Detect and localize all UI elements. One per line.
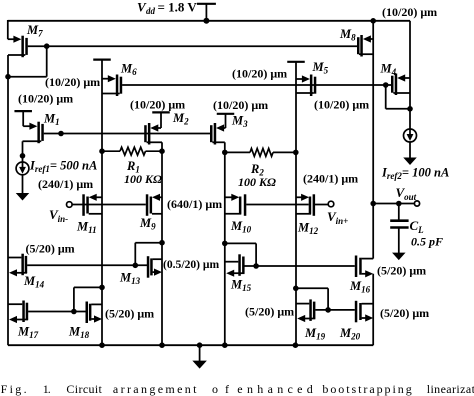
svg-text:(240/1) μm: (240/1) μm bbox=[38, 177, 93, 191]
svg-text:M16: M16 bbox=[349, 279, 371, 295]
svg-text:(10/20) μm: (10/20) μm bbox=[213, 98, 268, 112]
svg-text:1.: 1. bbox=[43, 382, 51, 396]
svg-text:(5/20) μm: (5/20) μm bbox=[245, 305, 294, 319]
svg-text:Vin+: Vin+ bbox=[327, 209, 348, 226]
svg-text:100 KΩ: 100 KΩ bbox=[124, 172, 162, 186]
svg-text:of: of bbox=[212, 382, 229, 396]
svg-text:M17: M17 bbox=[17, 325, 39, 341]
svg-text:(5/20) μm: (5/20) μm bbox=[380, 306, 429, 320]
svg-text:(10/20) μm: (10/20) μm bbox=[382, 5, 437, 19]
svg-text:M2: M2 bbox=[172, 111, 189, 127]
svg-text:M7: M7 bbox=[26, 23, 43, 39]
svg-text:M11: M11 bbox=[76, 220, 97, 236]
svg-text:Fig.: Fig. bbox=[1, 382, 27, 396]
svg-text:M18: M18 bbox=[68, 325, 90, 341]
svg-text:M15: M15 bbox=[230, 278, 252, 294]
svg-text:CL: CL bbox=[410, 218, 425, 235]
svg-text:(0.5/20) μm: (0.5/20) μm bbox=[163, 258, 219, 271]
svg-text:(5/20) μm: (5/20) μm bbox=[105, 307, 154, 321]
svg-text:M13: M13 bbox=[119, 271, 141, 287]
svg-text:Iref2= 100 nA: Iref2= 100 nA bbox=[381, 166, 449, 182]
svg-text:Vout: Vout bbox=[396, 185, 417, 202]
svg-text:M10: M10 bbox=[230, 219, 252, 235]
svg-text:M4: M4 bbox=[380, 62, 397, 78]
svg-text:(10/20) μm: (10/20) μm bbox=[314, 98, 369, 112]
svg-text:M3: M3 bbox=[231, 114, 248, 130]
svg-text:enhanced: enhanced bbox=[237, 382, 312, 396]
svg-text:M5: M5 bbox=[312, 60, 329, 76]
svg-text:(10/20) μm: (10/20) μm bbox=[232, 67, 287, 81]
svg-text:Circuit: Circuit bbox=[66, 382, 102, 396]
svg-text:M9: M9 bbox=[139, 216, 156, 232]
svg-text:(10/20) μm: (10/20) μm bbox=[130, 98, 185, 112]
svg-text:M14: M14 bbox=[23, 274, 45, 290]
svg-text:M20: M20 bbox=[339, 326, 361, 342]
svg-text:= 1.8 V: = 1.8 V bbox=[158, 0, 198, 15]
svg-text:M1: M1 bbox=[43, 112, 60, 128]
svg-text:(240/1) μm: (240/1) μm bbox=[303, 172, 358, 186]
svg-text:M12: M12 bbox=[297, 221, 319, 237]
svg-text:M19: M19 bbox=[304, 326, 326, 342]
svg-text:dd: dd bbox=[146, 6, 156, 16]
svg-text:arrangement: arrangement bbox=[113, 382, 197, 396]
svg-text:M8: M8 bbox=[339, 27, 356, 43]
svg-text:(10/20) μm: (10/20) μm bbox=[18, 92, 73, 106]
svg-text:Vin-: Vin- bbox=[49, 207, 68, 224]
svg-text:bootstrapping: bootstrapping bbox=[322, 382, 411, 396]
svg-text:0.5 pF: 0.5 pF bbox=[411, 235, 443, 249]
svg-text:100 KΩ: 100 KΩ bbox=[238, 175, 276, 189]
svg-text:(5/20) μm: (5/20) μm bbox=[377, 264, 426, 278]
svg-text:(5/20) μm: (5/20) μm bbox=[26, 242, 75, 256]
svg-text:linearizati: linearizati bbox=[427, 382, 474, 396]
svg-text:(640/1) μm: (640/1) μm bbox=[167, 197, 222, 211]
svg-text:M6: M6 bbox=[120, 62, 137, 78]
svg-text:Iref1= 500 nA: Iref1= 500 nA bbox=[29, 159, 97, 175]
svg-text:(10/20) μm: (10/20) μm bbox=[45, 75, 100, 89]
